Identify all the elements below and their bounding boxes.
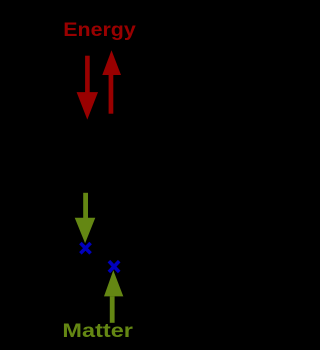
red up arrow bbox=[102, 50, 121, 113]
blue X node 2 bbox=[109, 261, 119, 272]
green down arrow bbox=[75, 193, 96, 243]
green up arrow bbox=[104, 270, 123, 323]
svg-text:Matter: Matter bbox=[62, 320, 133, 342]
blue X node 1 bbox=[80, 243, 90, 253]
red down arrow bbox=[77, 56, 98, 120]
svg-text:Energy: Energy bbox=[63, 20, 136, 41]
